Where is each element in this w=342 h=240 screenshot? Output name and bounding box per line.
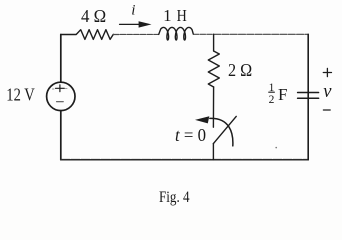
wire: switch pivot to bottom rail (212, 144, 214, 160)
svg-text:Fig. 4: Fig. 4 (159, 189, 190, 206)
svg-text:H: H (177, 6, 187, 25)
resistor R2 2 ohm (vertical zigzag) (208, 51, 219, 87)
voltage source plus mark (56, 85, 65, 92)
resistor R1 4 ohm (horizontal zigzag) (76, 30, 113, 40)
svg-text:F: F (278, 85, 287, 104)
wire: top rail, middle junction to top-right corner (214, 33, 309, 35)
switch actuation arc (210, 118, 233, 146)
svg-text:12 V: 12 V (6, 85, 35, 105)
wire: middle branch, top junction to 2-ohm resistor (213, 34, 215, 51)
wire: bottom rail (61, 159, 308, 161)
inductor L1 1 H (coil with loops) (159, 27, 194, 40)
svg-text:1: 1 (269, 82, 275, 94)
capacitor polarity minus sign (323, 109, 330, 111)
svg-text:1: 1 (163, 6, 172, 25)
wire: top rail, 4-ohm to inductor (114, 33, 159, 35)
wire: top rail, top-left corner to 4-ohm resistor (61, 35, 76, 46)
switch arc arrowhead (195, 116, 209, 123)
wire: top rail, inductor to middle junction (193, 33, 213, 35)
current arrow i (shaft) (120, 23, 142, 25)
current arrow i (head) (139, 21, 152, 27)
svg-text:2 Ω: 2 Ω (228, 60, 252, 80)
wire: left rail, source - terminal to bottom-left corner (60, 111, 62, 160)
svg-text:i: i (131, 2, 135, 18)
svg-text:4 Ω: 4 Ω (81, 6, 106, 26)
wire: middle branch, 2-ohm to switch fixed contact (212, 87, 214, 127)
svg-text:v: v (323, 82, 332, 102)
voltage source minus mark (57, 101, 64, 103)
wire: left rail, top-left corner down to source + terminal (60, 35, 62, 83)
capacitor polarity plus sign (323, 68, 331, 76)
capacitor C1 1/2 F lower plate (298, 97, 319, 99)
fraction bar of 1/2 F label (269, 91, 275, 93)
capacitor C1 1/2 F upper plate (298, 92, 319, 94)
svg-text:2: 2 (269, 94, 275, 106)
scan speck near capacitor (275, 147, 277, 149)
switch S1 blade (open, operates at t=0) (213, 116, 236, 143)
faint side ticks beside plus (scan artifact) (52, 88, 67, 90)
voltage source V1 12 V (circle) (47, 82, 75, 110)
svg-text:t = 0: t = 0 (175, 125, 206, 145)
wire: right rail (top corner to bottom corner) (307, 34, 309, 159)
